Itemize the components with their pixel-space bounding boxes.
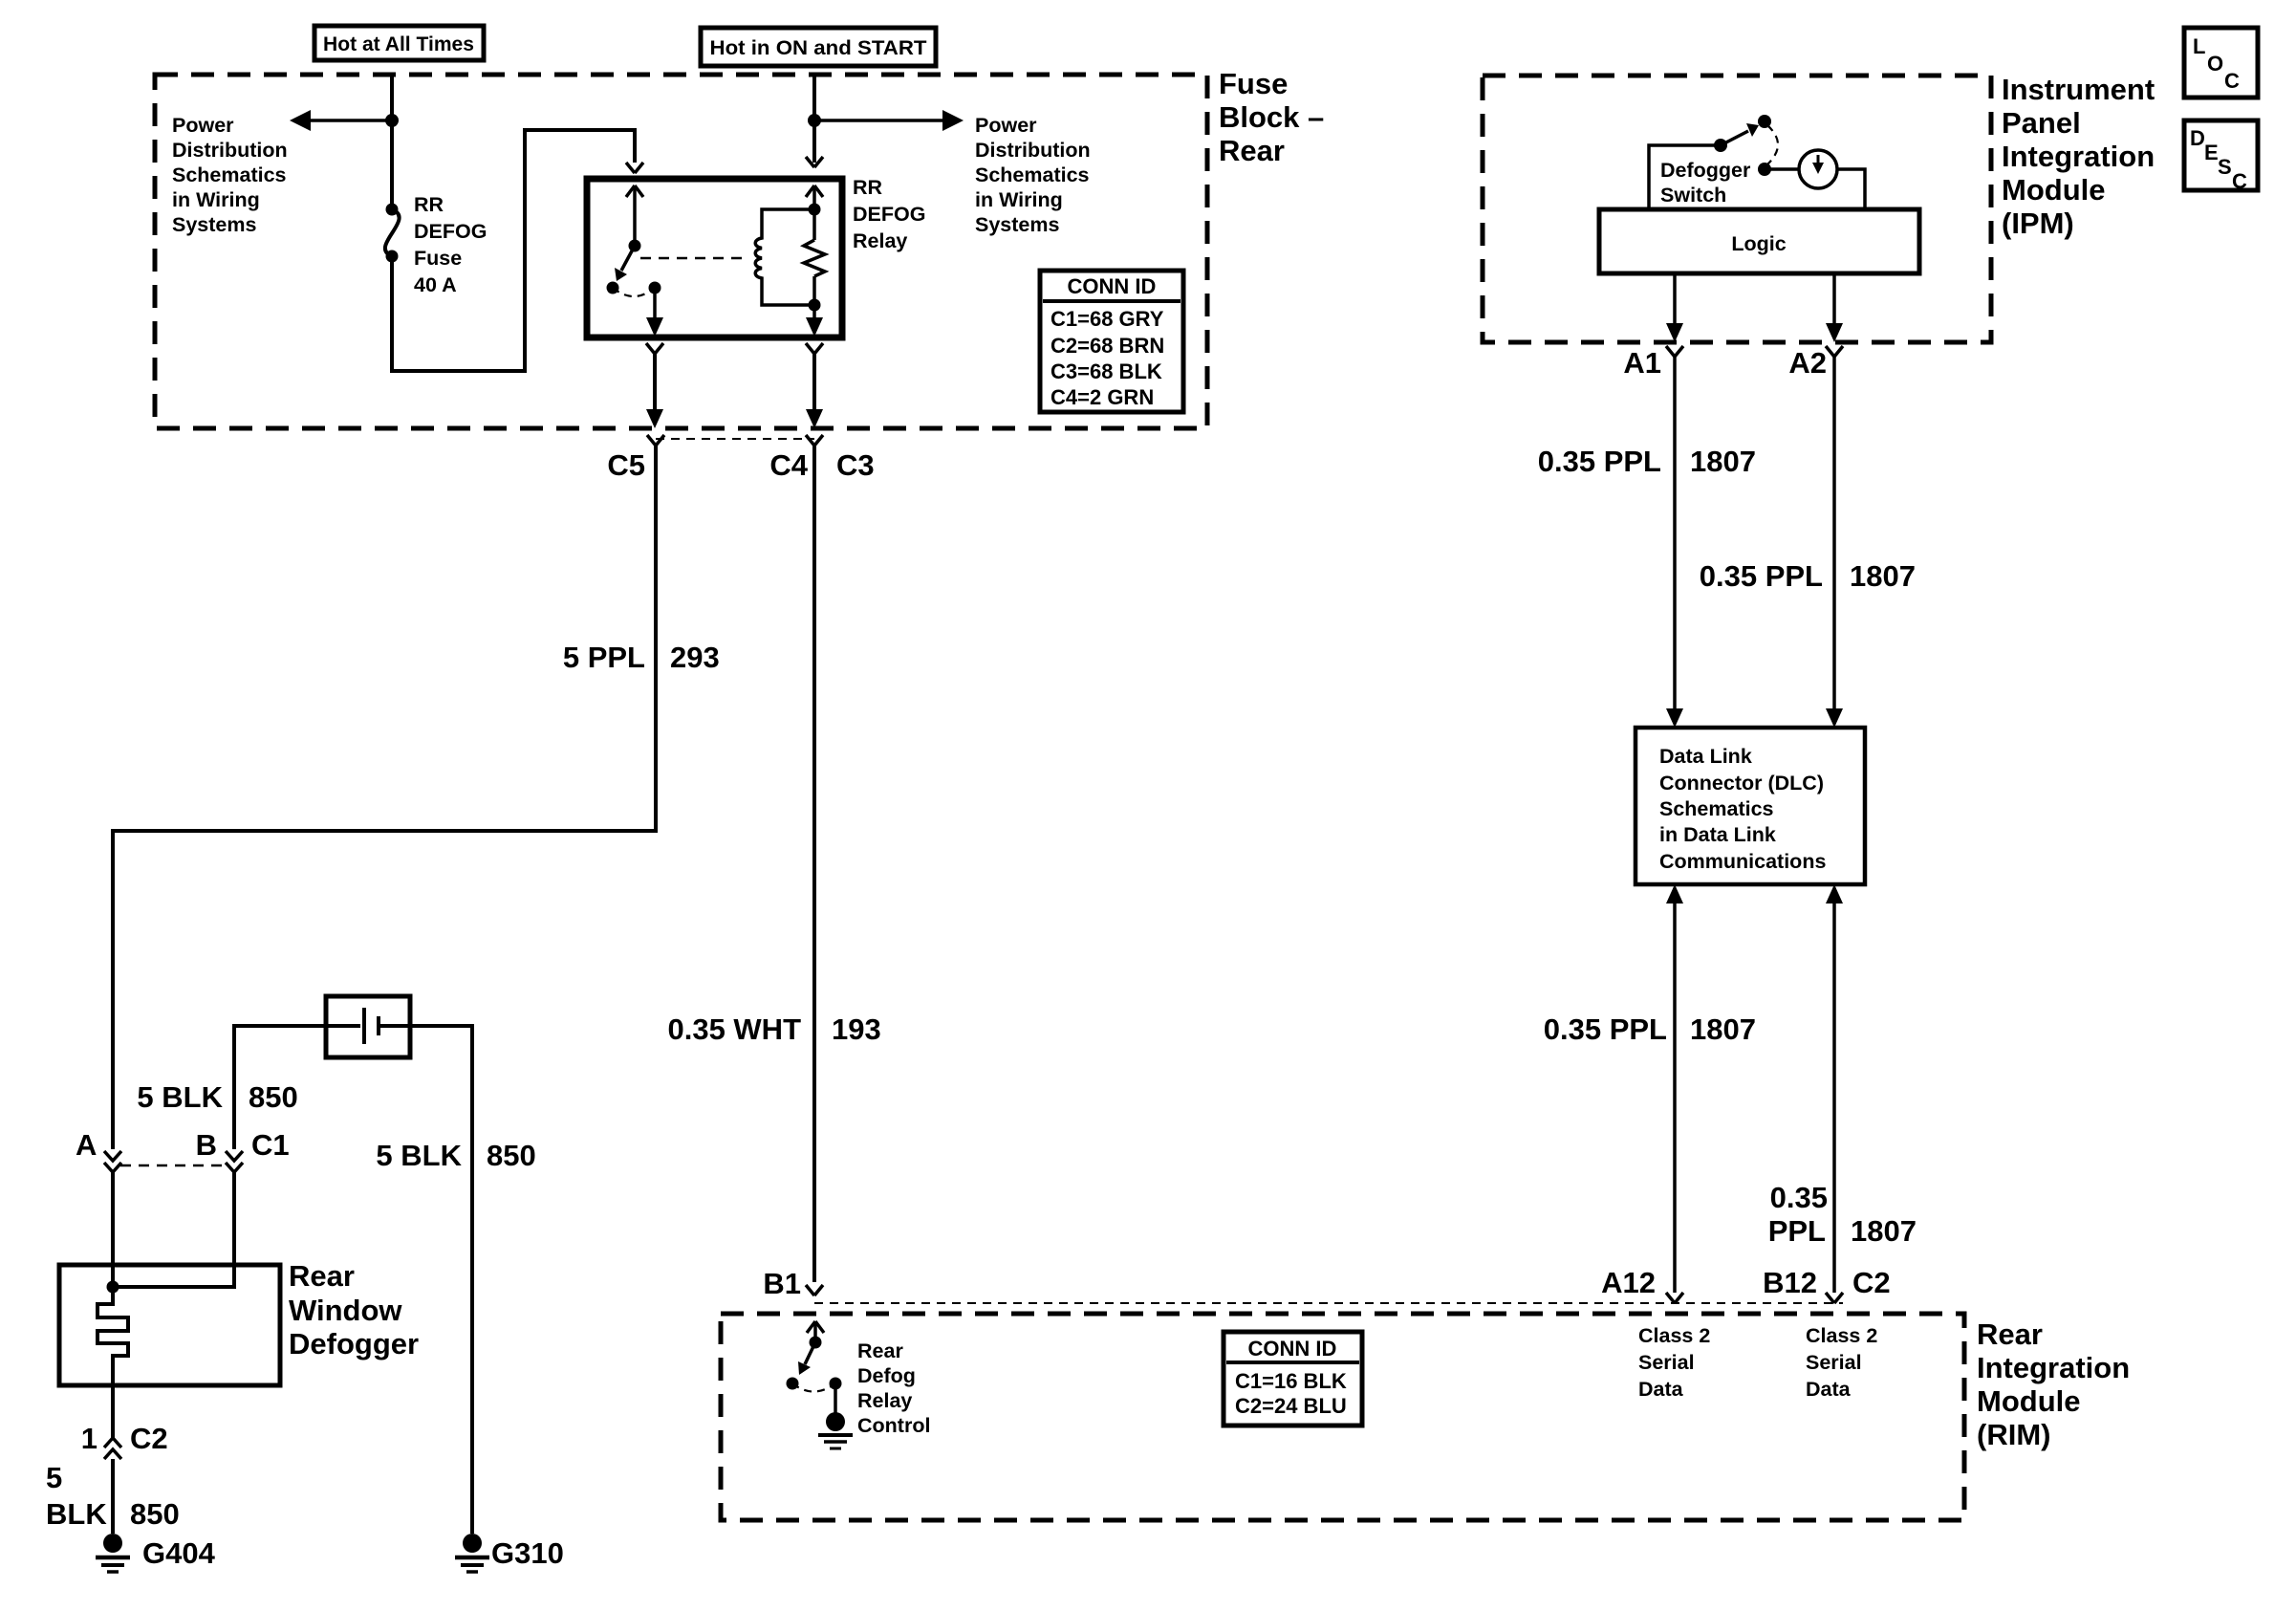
wire contact to ground [834, 1383, 837, 1414]
label Rear Defog Relay Control [857, 1339, 930, 1437]
wire C5 run to defogger [113, 446, 656, 1149]
svg-text:850: 850 [487, 1139, 536, 1172]
svg-text:Power: Power [975, 114, 1037, 137]
svg-text:Module: Module [2002, 173, 2106, 207]
svg-text:Data: Data [1638, 1378, 1684, 1401]
fuse block dashed border [155, 75, 1207, 428]
wire switch to indicator [1765, 167, 1799, 171]
RIM switch arm [798, 1342, 815, 1375]
svg-text:0.35 WHT: 0.35 WHT [667, 1012, 801, 1046]
svg-text:Fuse: Fuse [1219, 67, 1288, 100]
wire hot-in-on feed [812, 75, 816, 163]
connector Y relay right input [806, 157, 823, 167]
svg-text:5 BLK: 5 BLK [376, 1139, 462, 1172]
relay switch contact left [607, 282, 619, 294]
svg-text:Instrument: Instrument [2002, 73, 2155, 106]
svg-text:Rear: Rear [289, 1259, 355, 1293]
wire indicator to logic [1837, 169, 1865, 209]
svg-text:Switch: Switch [1660, 184, 1726, 207]
svg-text:1: 1 [81, 1422, 97, 1455]
ground internal RIM [818, 1412, 853, 1448]
hyperlink box LOC [2184, 28, 2258, 98]
svg-text:850: 850 [249, 1080, 298, 1114]
svg-text:C1: C1 [251, 1128, 290, 1162]
connector Y C5 [647, 435, 664, 446]
svg-text:Integration: Integration [2002, 140, 2155, 173]
svg-text:40 A: 40 A [414, 273, 457, 296]
svg-text:5: 5 [46, 1461, 62, 1494]
label Data Link Connector DLC [1659, 745, 1826, 873]
wire A12 serial data [1673, 900, 1677, 1293]
svg-text:Relay: Relay [853, 229, 907, 252]
wire relay switch input [626, 185, 643, 246]
svg-text:Serial: Serial [1638, 1351, 1695, 1374]
svg-text:Class 2: Class 2 [1638, 1324, 1710, 1347]
svg-text:(IPM): (IPM) [2002, 207, 2074, 240]
svg-text:0.35 PPL: 0.35 PPL [1538, 445, 1661, 478]
label power distribution left [172, 114, 288, 236]
svg-text:Rear: Rear [1977, 1317, 2043, 1351]
label Class 2 Serial Data right [1806, 1324, 1877, 1401]
ground G404 [96, 1534, 130, 1572]
svg-text:0.35 PPL: 0.35 PPL [1700, 559, 1823, 593]
connector arrows pin1 C2 [104, 1438, 121, 1459]
svg-text:Connector (DLC): Connector (DLC) [1659, 772, 1824, 795]
connector Y below relay right [806, 343, 823, 354]
label power distribution right [975, 114, 1091, 236]
svg-text:B1: B1 [763, 1267, 801, 1300]
wire relay left to fuse block border [653, 354, 657, 413]
svg-text:C5: C5 [607, 448, 645, 482]
label Fuse Block - Rear [1219, 67, 1324, 167]
RIM dashed border [721, 1314, 1964, 1520]
label Class 2 Serial Data left [1638, 1324, 1710, 1401]
svg-text:PPL: PPL [1768, 1214, 1826, 1248]
dashed actuation link relay [640, 257, 747, 260]
svg-text:DEFOG: DEFOG [414, 220, 487, 243]
arrow at border C5 [646, 409, 663, 428]
svg-text:B12: B12 [1763, 1266, 1817, 1299]
wire logic output A1 [1673, 273, 1677, 329]
logic box [1599, 209, 1919, 273]
svg-text:CONN ID: CONN ID [1068, 274, 1157, 298]
RIM switch contact left [787, 1378, 799, 1390]
wire suppressor to G310 [410, 1026, 472, 1534]
svg-text:Schematics: Schematics [975, 163, 1090, 186]
svg-text:C1=16 BLK: C1=16 BLK [1235, 1369, 1347, 1393]
svg-text:C3: C3 [836, 448, 875, 482]
wire B1 control [812, 446, 816, 1282]
connector Y A12 [1666, 1293, 1683, 1303]
svg-text:1807: 1807 [1690, 445, 1756, 478]
arrow A1 at IPM border [1666, 323, 1683, 342]
svg-text:Distribution: Distribution [975, 139, 1091, 162]
connector arrows C1 [226, 1151, 243, 1172]
svg-text:Logic: Logic [1731, 232, 1786, 255]
svg-text:Power: Power [172, 114, 234, 137]
RIM switch contact right [830, 1378, 842, 1390]
wire to power distribution right [814, 119, 946, 122]
node coil top [809, 204, 821, 216]
svg-text:A12: A12 [1601, 1266, 1656, 1299]
svg-text:C: C [2224, 69, 2240, 93]
svg-text:5 BLK: 5 BLK [137, 1080, 223, 1114]
svg-text:CONN ID: CONN ID [1248, 1337, 1337, 1361]
wire C2 to G404 [111, 1459, 115, 1534]
svg-text:B: B [196, 1128, 217, 1162]
svg-text:Schematics: Schematics [172, 163, 287, 186]
capacitor element [326, 1008, 410, 1044]
wire logic output A2 [1832, 273, 1836, 329]
svg-text:C: C [2232, 169, 2247, 193]
svg-text:in Wiring: in Wiring [975, 188, 1063, 211]
label Instrument Panel Integration Module (IPM) [2002, 73, 2155, 240]
node defogger input junction [107, 1281, 119, 1294]
relay switch arm [615, 246, 635, 281]
svg-text:193: 193 [832, 1012, 881, 1046]
svg-text:RR: RR [414, 193, 444, 216]
wire relay right to fuse block border [812, 354, 816, 413]
dashed connector line A-B [120, 1165, 227, 1167]
wire relay coil branch vertical [806, 185, 823, 326]
svg-text:Module: Module [1977, 1384, 2081, 1418]
label Rear Integration Module (RIM) [1977, 1317, 2130, 1451]
relay switch common node [629, 240, 641, 252]
svg-text:Systems: Systems [172, 213, 256, 236]
arrow left power distribution [290, 110, 311, 131]
svg-text:Defogger: Defogger [289, 1327, 419, 1361]
svg-text:O: O [2207, 52, 2223, 76]
svg-text:C4=2 GRN: C4=2 GRN [1051, 385, 1154, 409]
connector Y C2 [1826, 1293, 1843, 1303]
connector Y A2 [1826, 346, 1843, 357]
wire suppressor to C1 connector [234, 1026, 326, 1149]
arrow into DLC left [1666, 708, 1683, 728]
wire defogger to C2 connector [111, 1385, 115, 1438]
connector arrows A [104, 1151, 121, 1172]
wire B12 serial data [1832, 900, 1836, 1293]
svg-text:0.35: 0.35 [1770, 1181, 1828, 1214]
wire relay control input [807, 1321, 824, 1342]
svg-text:1807: 1807 [1850, 559, 1916, 593]
svg-text:Fuse: Fuse [414, 247, 462, 270]
svg-text:5 PPL: 5 PPL [563, 641, 645, 674]
svg-text:Relay: Relay [857, 1389, 912, 1412]
svg-text:E: E [2204, 141, 2219, 164]
dashed travel arc RIM switch [792, 1383, 835, 1392]
svg-text:L: L [2193, 34, 2205, 58]
connector Y B1 [806, 1285, 823, 1295]
defogger switch contact lower [1758, 163, 1771, 176]
svg-text:A1: A1 [1623, 346, 1661, 380]
wire A1 to DLC [1673, 357, 1677, 712]
noise suppressor box [326, 996, 410, 1057]
indicator lamp [1799, 150, 1837, 188]
svg-text:Data: Data [1806, 1378, 1852, 1401]
svg-text:Data Link: Data Link [1659, 745, 1752, 768]
hyperlink box DESC [2184, 120, 2258, 193]
svg-text:BLK: BLK [46, 1497, 107, 1531]
svg-text:Rear: Rear [857, 1339, 903, 1362]
svg-text:Control: Control [857, 1414, 930, 1437]
connector Y C4 [806, 435, 823, 446]
CONN ID table RIM [1224, 1332, 1362, 1426]
svg-text:D: D [2190, 126, 2205, 150]
svg-text:1807: 1807 [1851, 1214, 1917, 1248]
defogger grid element [97, 1287, 128, 1385]
svg-text:Systems: Systems [975, 213, 1059, 236]
svg-text:in Data Link: in Data Link [1659, 823, 1776, 846]
svg-text:Window: Window [289, 1294, 402, 1327]
svg-text:C2=24 BLU: C2=24 BLU [1235, 1394, 1347, 1418]
defogger switch arm [1721, 123, 1759, 145]
svg-text:G404: G404 [142, 1536, 216, 1570]
svg-text:C2: C2 [130, 1422, 168, 1455]
wire fuse to relay jog [392, 130, 635, 371]
svg-text:C2=68 BRN: C2=68 BRN [1051, 334, 1164, 358]
svg-text:293: 293 [670, 641, 720, 674]
svg-text:RR: RR [853, 176, 883, 199]
svg-text:Hot at All Times: Hot at All Times [323, 33, 474, 55]
fuse RR DEFOG 40A [385, 204, 400, 263]
label Rear Window Defogger [289, 1259, 419, 1361]
arrow right power distribution [942, 110, 964, 131]
arrow at border C4 [806, 409, 823, 428]
label Defogger Switch [1660, 159, 1751, 207]
rear window defogger box [59, 1265, 280, 1385]
arrow up into DLC bottom left [1666, 884, 1683, 903]
thin dashed connector line C5-C4 [656, 438, 814, 440]
arrow relay left output [646, 288, 663, 337]
svg-text:Rear: Rear [1219, 134, 1285, 167]
svg-text:C1=68 GRY: C1=68 GRY [1051, 307, 1164, 331]
svg-text:in Wiring: in Wiring [172, 188, 260, 211]
thin dashed connector line RIM [814, 1302, 1843, 1304]
relay box RR DEFOG [587, 179, 842, 337]
svg-text:Block –: Block – [1219, 100, 1324, 134]
dashed travel arc relay switch [613, 288, 655, 296]
wire A2 to DLC [1832, 357, 1836, 712]
svg-text:S: S [2218, 155, 2232, 179]
svg-text:Defogger: Defogger [1660, 159, 1751, 182]
arrow into DLC right [1826, 708, 1843, 728]
defogger switch contact upper [1758, 115, 1771, 128]
svg-text:(RIM): (RIM) [1977, 1418, 2050, 1451]
wire logic to defogger switch [1649, 145, 1716, 209]
svg-text:1807: 1807 [1690, 1012, 1756, 1046]
svg-text:Communications: Communications [1659, 850, 1826, 873]
svg-text:A: A [76, 1128, 97, 1162]
defogger switch common node [1714, 139, 1727, 152]
node coil bottom [809, 299, 821, 312]
arrow A2 at IPM border [1826, 323, 1843, 342]
data link connector box [1635, 728, 1865, 884]
svg-text:C3=68 BLK: C3=68 BLK [1051, 359, 1162, 383]
dashed travel arc defogger switch [1767, 125, 1778, 164]
relay switch contact right [649, 282, 661, 294]
label box Hot in ON and START [701, 28, 936, 66]
label RR DEFOG Fuse 40 A [414, 193, 487, 296]
IPM dashed border [1483, 76, 1991, 342]
svg-text:Panel: Panel [2002, 106, 2081, 140]
relay resistor [804, 240, 825, 276]
svg-text:DEFOG: DEFOG [853, 203, 925, 226]
svg-text:A2: A2 [1788, 346, 1827, 380]
wire hot-at-all-times feed [390, 75, 394, 209]
svg-text:Integration: Integration [1977, 1351, 2130, 1384]
wire to power distribution left [308, 119, 392, 122]
relay coil [755, 209, 814, 305]
arrow relay right output [806, 317, 823, 337]
CONN ID table fuse block [1040, 271, 1183, 412]
svg-text:Serial: Serial [1806, 1351, 1862, 1374]
wire A into defogger [111, 1172, 115, 1287]
connector Y below relay left [646, 343, 663, 354]
ground G310 [455, 1534, 489, 1572]
node junction left feed [385, 114, 399, 127]
svg-text:Defog: Defog [857, 1364, 916, 1387]
label box Hot at All Times [314, 26, 484, 60]
node junction right feed [808, 114, 821, 127]
connector Y at relay input [626, 163, 643, 173]
svg-text:G310: G310 [491, 1536, 564, 1570]
svg-text:850: 850 [130, 1497, 180, 1531]
svg-text:C2: C2 [1852, 1266, 1891, 1299]
label RR DEFOG Relay [853, 176, 925, 252]
wire C1 into defogger [113, 1172, 234, 1287]
svg-text:Distribution: Distribution [172, 139, 288, 162]
svg-text:C4: C4 [769, 448, 808, 482]
arrow up into DLC bottom right [1826, 884, 1843, 903]
svg-text:0.35 PPL: 0.35 PPL [1544, 1012, 1667, 1046]
svg-text:Schematics: Schematics [1659, 797, 1774, 820]
svg-text:Class 2: Class 2 [1806, 1324, 1877, 1347]
svg-text:Hot in ON and START: Hot in ON and START [710, 36, 927, 59]
connector Y A1 [1666, 346, 1683, 357]
RIM switch common node [810, 1337, 822, 1349]
